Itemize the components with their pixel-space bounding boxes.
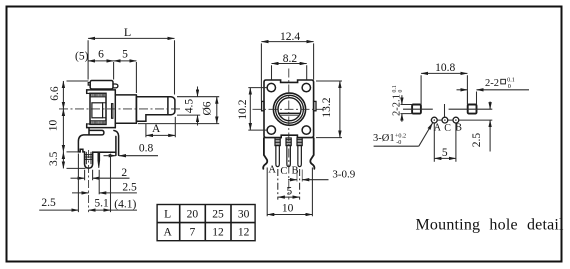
- dim 2-2.1 extensions: [401, 105, 413, 114]
- svg-text:12: 12: [212, 226, 224, 238]
- svg-text:5: 5: [122, 48, 128, 60]
- body top flange: [87, 90, 116, 94]
- svg-text:0: 0: [508, 83, 511, 90]
- bracket right leg: [114, 131, 119, 156]
- hole B: [453, 117, 459, 123]
- dim 6/5 extensions: [114, 62, 137, 93]
- dim 12.4 extensions: [261, 43, 313, 101]
- dim 10.8 extensions: [421, 75, 467, 104]
- body face slot: [112, 104, 113, 119]
- svg-text:25: 25: [212, 208, 224, 220]
- centerline shaft: [59, 108, 181, 110]
- dim 10.2 extensions: [248, 88, 267, 131]
- svg-text:4.5: 4.5: [183, 99, 195, 114]
- dim 13.2 line: [339, 81, 341, 138]
- shaft bushing: [115, 95, 136, 123]
- svg-text:2.5: 2.5: [122, 181, 137, 193]
- lower mounting tab: [89, 128, 104, 135]
- svg-text:2-2: 2-2: [485, 78, 499, 89]
- body bottom flange: [87, 124, 116, 128]
- pin A: [275, 138, 280, 167]
- dim 4.5 line: [197, 87, 199, 97]
- svg-text:A: A: [434, 122, 442, 133]
- body right edge: [114, 90, 116, 128]
- corner rivet bottom-right: [302, 126, 310, 134]
- vertical centerline: [288, 69, 290, 200]
- wheel inner window: [92, 103, 103, 118]
- table frame: [157, 205, 255, 241]
- svg-text:A: A: [163, 226, 172, 238]
- pin C: [286, 138, 291, 167]
- dim 2-2.1 lines: [401, 95, 403, 104]
- svg-text:L: L: [164, 208, 171, 220]
- svg-text:10.2: 10.2: [237, 99, 249, 119]
- holes row line: [431, 119, 493, 121]
- pin B: [297, 138, 302, 167]
- dim 10.8 line: [421, 72, 467, 74]
- leader 3-diam1: [374, 145, 419, 147]
- shaft circle: [278, 98, 301, 121]
- dim 5 line: [434, 157, 456, 159]
- dim 8.2 extensions: [272, 65, 307, 79]
- svg-text:Ø6: Ø6: [202, 101, 214, 115]
- dim 5 line: [278, 196, 300, 198]
- right side notch: [314, 101, 316, 110]
- dim 10 line: [62, 109, 64, 152]
- dim 5 extensions: [434, 124, 456, 162]
- dim 13.2 extensions: [316, 81, 342, 138]
- svg-text:5.1: 5.1: [94, 198, 109, 210]
- dim L line: [88, 37, 174, 39]
- svg-text:B: B: [291, 165, 298, 176]
- dim 3-0.9 leader: [288, 179, 297, 181]
- top tab left nub: [88, 83, 90, 86]
- rotor top tab: [90, 81, 113, 90]
- shaft flat chord: [279, 112, 301, 114]
- dim A line: [146, 134, 175, 136]
- dim 2-2 lines: [457, 89, 468, 91]
- right extensions: [138, 97, 219, 124]
- pin 2 (needle): [98, 152, 100, 168]
- svg-text:10.8: 10.8: [435, 62, 455, 74]
- svg-text:13.2: 13.2: [321, 97, 333, 117]
- square hole 2: [468, 105, 477, 114]
- bottom dim line 2.5/5.1/(4.1): [39, 209, 78, 211]
- shaft tip cap: [168, 97, 175, 115]
- corner rivet top-left: [267, 83, 275, 91]
- dim 5 extensions: [278, 169, 300, 200]
- squares centerline: [403, 108, 492, 110]
- square hole 1: [412, 105, 421, 114]
- dim 2.5 lines: [72, 192, 89, 194]
- svg-text:2.5: 2.5: [471, 133, 483, 148]
- svg-text:30: 30: [238, 208, 250, 220]
- dim 2.5 lines: [489, 102, 491, 110]
- svg-text:6: 6: [98, 48, 104, 60]
- dim diameter 6 line: [216, 97, 218, 124]
- dim 3.5 line: [62, 152, 64, 169]
- svg-text:12: 12: [238, 226, 250, 238]
- dim 12.4 line: [261, 41, 313, 43]
- dim 8.2 line: [272, 63, 307, 65]
- svg-text:L: L: [124, 25, 131, 39]
- dim 0.8 lines: [104, 155, 116, 157]
- dim 10 line: [267, 214, 312, 216]
- dim 5 line: [114, 60, 137, 62]
- dim 2-2 extensions: [468, 92, 477, 105]
- pin 1 inner walls: [86, 152, 91, 164]
- shaft boss outer circle: [273, 93, 305, 125]
- svg-text:(4.1): (4.1): [114, 198, 136, 210]
- svg-text:10: 10: [282, 202, 294, 214]
- table column dividers: [180, 205, 231, 241]
- svg-text:3.5: 3.5: [48, 151, 60, 166]
- dim 6 line: [88, 60, 114, 62]
- corner rivet top-right: [302, 83, 310, 91]
- svg-text:A: A: [152, 123, 161, 135]
- right hook claw: [310, 138, 314, 169]
- svg-text:6.6: 6.6: [49, 86, 61, 101]
- svg-text:0.8: 0.8: [139, 143, 154, 155]
- pin 1 crimp lines: [85, 155, 93, 160]
- wheel knurl hatch top: [91, 94, 106, 97]
- dim 6.6 line: [62, 81, 64, 109]
- svg-text:B: B: [455, 122, 462, 133]
- svg-text:10: 10: [48, 120, 60, 132]
- shaft: [136, 97, 168, 122]
- dim L extensions: [88, 40, 174, 94]
- svg-text:C: C: [444, 123, 451, 134]
- svg-text:Mounting hole detail: Mounting hole detail: [416, 217, 565, 234]
- wheel knurl top edge: [90, 96, 106, 98]
- svg-text:3-Ø1: 3-Ø1: [373, 133, 395, 144]
- left hook claw: [263, 138, 267, 169]
- wheel knurl bottom edge: [90, 120, 106, 122]
- table row divider: [157, 222, 255, 224]
- svg-text:8.2: 8.2: [283, 53, 298, 65]
- svg-text:2.5: 2.5: [41, 197, 56, 209]
- hole A: [431, 117, 437, 123]
- dim 2 lines: [71, 177, 85, 179]
- label 2-2.1 with tolerance: [392, 85, 405, 116]
- adjustment wheel: [90, 93, 106, 124]
- dim 10 extensions: [267, 168, 312, 217]
- top tab right nub: [113, 84, 118, 88]
- svg-text:-0: -0: [396, 139, 401, 146]
- svg-text:A: A: [268, 165, 276, 176]
- corner rivet bottom-left: [267, 126, 275, 134]
- bracket with pin 1: [78, 135, 116, 168]
- horizontal centerline: [253, 108, 325, 110]
- dim 2 extensions: [85, 170, 93, 180]
- pin1 centerline: [88, 150, 90, 212]
- svg-text:3-0.9: 3-0.9: [332, 168, 355, 180]
- dim 10.2 line: [249, 88, 251, 131]
- center axis tick: [444, 104, 446, 117]
- bottom dim extensions: [78, 154, 110, 213]
- shaft boss ring: [276, 95, 304, 123]
- svg-text:5: 5: [442, 147, 448, 159]
- svg-text:(5): (5): [75, 50, 89, 62]
- dim 2.5 extension: [98, 170, 100, 195]
- svg-text:5: 5: [286, 185, 292, 197]
- svg-text:7: 7: [190, 226, 196, 238]
- wheel knurl hatch bottom: [91, 121, 106, 124]
- shaft flat lower edge: [280, 114, 300, 116]
- svg-text:2: 2: [121, 167, 127, 179]
- svg-text:0: 0: [398, 90, 404, 93]
- left side notch: [262, 101, 264, 110]
- hole C: [442, 117, 448, 123]
- svg-text:C: C: [280, 166, 287, 177]
- svg-text:20: 20: [187, 208, 199, 220]
- front body with top notch: [264, 80, 314, 138]
- left dim extensions: [67, 81, 89, 168]
- svg-text:12.4: 12.4: [280, 31, 300, 43]
- svg-text:2-2.1: 2-2.1: [392, 94, 403, 116]
- dim A extensions: [146, 117, 175, 137]
